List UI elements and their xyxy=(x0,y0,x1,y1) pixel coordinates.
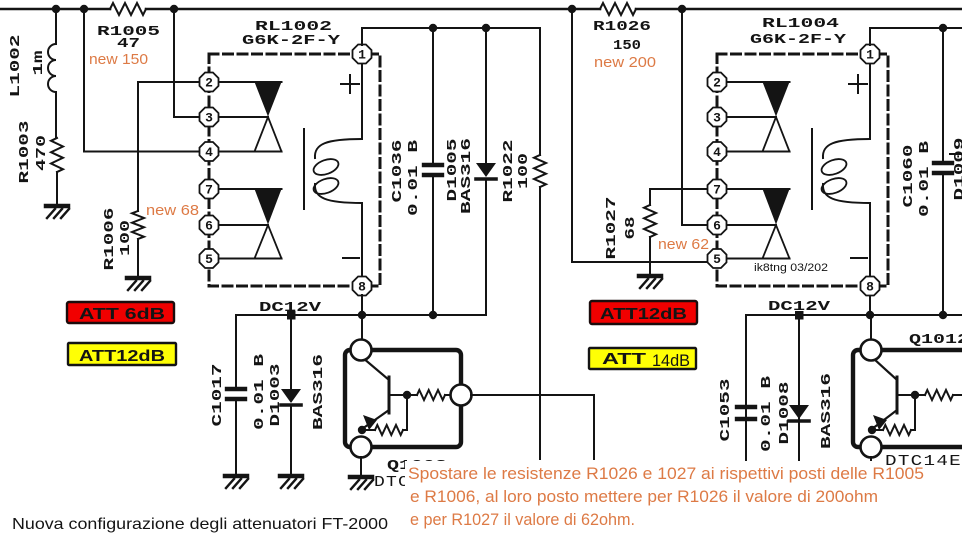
resistor R1026 150 (new 200) xyxy=(600,3,636,15)
node: junction C1060/DC12V xyxy=(939,311,947,319)
svg-text:100: 100 xyxy=(516,153,532,189)
transistor Q1003 DTC box outline xyxy=(345,350,461,447)
transistor emitter lead with arrow xyxy=(362,410,389,429)
node: emitter junction xyxy=(358,426,366,434)
relay RL1004 pin 6 xyxy=(708,216,727,235)
svg-text:new 200: new 200 xyxy=(594,54,656,71)
svg-text:e R1006, al loro posto mettere: e R1006, al loro posto mettere per R1026… xyxy=(410,487,878,506)
transistor Q1003 right pad xyxy=(451,385,472,406)
svg-text:6: 6 xyxy=(713,219,721,234)
wire: DC12V rail (right) xyxy=(746,314,962,316)
label box ATT 14dB (yellow, right) xyxy=(589,348,696,369)
svg-text:ik8tng 03/202: ik8tng 03/202 xyxy=(754,262,828,274)
svg-text:BAS316: BAS316 xyxy=(311,354,327,430)
svg-text:R1003: R1003 xyxy=(17,121,33,184)
relay RL1004 pin 7 xyxy=(708,180,727,199)
wire: bus to relay pin 3 xyxy=(174,9,199,117)
svg-text:DTC14E: DTC14E xyxy=(885,453,962,470)
relay RL1002 pin 1 xyxy=(353,45,372,64)
node: bus junction right of R1005 xyxy=(170,5,178,13)
svg-text:R1022: R1022 xyxy=(501,140,517,203)
relay contact B (pins 7-6-5) xyxy=(763,189,790,225)
svg-text:2: 2 xyxy=(713,76,721,91)
coil + polarity mark xyxy=(849,83,867,85)
wire: pin 2 contact line xyxy=(726,81,790,83)
ground under R1003 xyxy=(46,206,69,218)
label box ATT12dB (red, right) xyxy=(590,301,697,324)
svg-text:BAS316: BAS316 xyxy=(459,138,475,214)
relay RL1002 pin 4 xyxy=(200,142,219,161)
relay RL1004 pin 4 xyxy=(708,142,727,161)
svg-text:4: 4 xyxy=(205,145,213,160)
svg-text:new 68: new 68 xyxy=(146,202,199,219)
ground under R1006 xyxy=(127,278,150,290)
ground under C1017 xyxy=(225,476,248,488)
svg-text:D1003: D1003 xyxy=(268,364,284,427)
wire: pin 5 contact line xyxy=(726,258,790,260)
wire: Q1003 emitter pad to ground xyxy=(360,457,362,475)
transistor pad IN (top) xyxy=(351,340,372,361)
relay contact B (pins 7-6-5) xyxy=(255,189,282,225)
relay coil xyxy=(811,129,813,209)
wire: pin 4 contact line xyxy=(218,151,282,153)
resistor R2 (base-emitter) xyxy=(872,429,883,431)
svg-text:2: 2 xyxy=(205,76,213,91)
svg-text:7: 7 xyxy=(205,183,213,198)
svg-text:3: 3 xyxy=(713,111,721,126)
resistor R1003 470 xyxy=(51,138,63,172)
svg-text:1m: 1m xyxy=(31,51,47,76)
transistor pad OUT (bottom) xyxy=(861,437,882,458)
wire: relay pin 2 to R1006 xyxy=(138,82,200,211)
wire: pin 7 contact line xyxy=(726,188,790,190)
node: emitter junction xyxy=(868,426,876,434)
relay RL1002 pin 8 xyxy=(353,277,372,296)
wire: pin 8 to coil xyxy=(361,203,363,278)
svg-text:0.01 B: 0.01 B xyxy=(917,140,933,217)
node: bus junction at L1002 xyxy=(52,5,60,13)
diode D1005 BAS316 xyxy=(485,28,487,163)
svg-text:1: 1 xyxy=(866,48,874,63)
white backing of orange note xyxy=(405,461,933,532)
transistor pad IN (top) xyxy=(861,340,882,361)
diode D1009 (clipped at edge) xyxy=(950,153,962,155)
wire: pin 6 contact line xyxy=(726,224,776,226)
node: junction D1003/DC12V xyxy=(287,311,296,320)
wire: pin 3 contact line xyxy=(726,116,776,118)
wire: R2 to base node xyxy=(911,395,915,430)
capacitor C1060 0.01B xyxy=(942,28,944,161)
svg-text:7: 7 xyxy=(713,183,721,198)
wire: bus to relay pin 4 xyxy=(84,9,200,152)
svg-text:D1008: D1008 xyxy=(777,382,793,445)
relay RL1004 pin 2 xyxy=(708,73,727,92)
resistor R1005 47 (new 150) xyxy=(110,3,146,15)
relay coil xyxy=(303,129,305,209)
wire: base line xyxy=(897,394,925,396)
relay RL1002 pin 3 xyxy=(200,108,219,127)
relay RL1004 G6K-2F-Y dashed outline xyxy=(717,54,888,286)
node: junction D1008/DC12V xyxy=(795,311,804,320)
svg-text:8: 8 xyxy=(866,280,874,295)
node: junction pin8/DC12V right xyxy=(866,311,874,319)
wire: top +12V bus xyxy=(0,8,110,11)
svg-text:ATT12dB: ATT12dB xyxy=(600,306,687,323)
relay RL1002 pin 5 xyxy=(200,249,219,268)
label box ATT12dB (yellow) xyxy=(68,343,176,365)
wire: pin 8 to coil xyxy=(869,203,871,278)
transistor emitter lead with arrow xyxy=(872,410,897,429)
coil - polarity mark xyxy=(851,257,867,259)
svg-text:new 62: new 62 xyxy=(658,236,709,253)
svg-text:C1036: C1036 xyxy=(390,140,406,203)
svg-text:C1060: C1060 xyxy=(901,145,917,208)
svg-text:e per R1027 il valore di 62ohm: e per R1027 il valore di 62ohm. xyxy=(410,510,635,529)
svg-text:0.01 B: 0.01 B xyxy=(252,353,268,430)
node: junction C1036/DC12V xyxy=(429,311,437,319)
svg-text:4: 4 xyxy=(713,145,721,160)
transistor collector lead xyxy=(873,358,897,380)
resistor R2 (base-emitter) xyxy=(362,429,375,431)
node: bus junction left of R1005 xyxy=(80,5,88,13)
transistor pad OUT (bottom) xyxy=(351,437,372,458)
node: bus junction left of R1026 xyxy=(568,5,576,13)
wire: DC12V rail (left) xyxy=(236,314,486,316)
diode D1008 BAS316 xyxy=(798,315,800,461)
wire: pin 1 to coil xyxy=(869,62,871,139)
wire: pin 6 contact line xyxy=(218,224,268,226)
svg-text:5: 5 xyxy=(205,252,213,267)
node: junction C1060/rail xyxy=(939,24,947,32)
wire: pin 2 contact line xyxy=(218,81,282,83)
relay contact A (pins 2-3-4) xyxy=(763,82,790,117)
ground under R1027 xyxy=(639,276,662,288)
resistor R1 (base series) xyxy=(417,390,445,400)
wire: pin 4 contact line xyxy=(726,151,790,153)
svg-text:3: 3 xyxy=(205,111,213,126)
wire: bus to relay pin 5 (right) xyxy=(572,9,707,262)
wire: pin 8 stem down (right) xyxy=(869,296,871,315)
svg-text:G6K-2F-Y: G6K-2F-Y xyxy=(242,33,341,49)
wire: relay RL1004 pin 1 to upper rail xyxy=(870,28,962,45)
node: base junction xyxy=(403,391,411,399)
wire: pin 3 contact line xyxy=(218,116,268,118)
svg-text:C1053: C1053 xyxy=(718,379,734,442)
node: bus junction right of R1026 xyxy=(678,5,686,13)
svg-text:Spostare le resistenze R1026 e: Spostare le resistenze R1026 e 1027 ai r… xyxy=(408,464,924,483)
resistor R1006 100 (new 68) xyxy=(132,211,144,239)
svg-text:RL1004: RL1004 xyxy=(762,16,839,32)
svg-text:G6K-2F-Y: G6K-2F-Y xyxy=(750,32,847,48)
svg-text:100: 100 xyxy=(118,220,134,256)
capacitor C1036 0.01B xyxy=(432,28,434,163)
svg-text:ATT: ATT xyxy=(602,351,646,368)
relay RL1004 pin 3 xyxy=(708,108,727,127)
svg-text:150: 150 xyxy=(613,38,641,54)
svg-text:5: 5 xyxy=(713,252,721,267)
svg-text:R1027: R1027 xyxy=(604,197,620,260)
svg-text:8: 8 xyxy=(358,280,366,295)
node: junction pin8/DC12V xyxy=(358,311,366,319)
capacitor C1053 0.01B xyxy=(745,315,747,461)
resistor R1027 68 (new 62) xyxy=(649,189,651,205)
coil + polarity mark xyxy=(341,83,359,85)
wire: R2 to base node xyxy=(403,395,407,430)
inductor L1002 1m xyxy=(55,9,57,44)
wire: right transistor emitter stub xyxy=(870,457,872,462)
relay RL1004 pin 8 xyxy=(861,277,880,296)
relay RL1002 pin 7 xyxy=(200,180,219,199)
svg-text:Q1012: Q1012 xyxy=(909,332,962,348)
transistor collector lead xyxy=(363,358,389,380)
wire: DC12V to Q1003 collector pad xyxy=(361,315,363,341)
relay RL1004 pin 5 xyxy=(708,249,727,268)
svg-text:47: 47 xyxy=(117,36,140,52)
node: base junction xyxy=(911,391,919,399)
label box ATT 6dB (red) xyxy=(67,302,174,323)
svg-text:BAS316: BAS316 xyxy=(819,373,835,449)
wire: pin 8 stem down xyxy=(361,295,363,315)
relay RL1002 pin 2 xyxy=(200,73,219,92)
svg-text:0.01 B: 0.01 B xyxy=(406,139,422,216)
wire: relay pin 1 to upper branch rail xyxy=(362,28,540,45)
svg-text:14dB: 14dB xyxy=(652,351,690,370)
svg-text:R1026: R1026 xyxy=(593,19,651,35)
svg-text:Nuova configurazione degli att: Nuova configurazione degli attenuatori F… xyxy=(12,516,388,533)
svg-text:ATT12dB: ATT12dB xyxy=(79,348,165,365)
svg-text:68: 68 xyxy=(623,217,639,240)
relay RL1002 G6K-2F-Y dashed outline xyxy=(209,54,380,286)
node: junction D1005/rail xyxy=(482,24,490,32)
wire: bus to relay pin 6 (right) xyxy=(682,9,707,225)
svg-text:1: 1 xyxy=(358,48,366,63)
diode D1003 BAS316 xyxy=(290,315,292,389)
resistor R1022 100 xyxy=(539,28,541,155)
wire: pin 7 contact line xyxy=(218,188,282,190)
ground under Q1003 xyxy=(350,477,373,489)
svg-text:ATT 6dB: ATT 6dB xyxy=(79,306,165,323)
transistor base bar xyxy=(896,377,899,413)
wire: pin 1 to coil xyxy=(361,62,363,139)
coil - polarity mark xyxy=(343,257,359,259)
svg-text:L1002: L1002 xyxy=(8,34,24,97)
svg-text:470: 470 xyxy=(34,135,50,171)
wire: Q1003 output to lower right xyxy=(471,395,594,459)
wire: base line xyxy=(389,394,417,396)
svg-text:C1017: C1017 xyxy=(210,364,226,427)
capacitor C1017 0.01B xyxy=(235,315,237,387)
transistor Q1012 DTC box outline xyxy=(853,350,962,447)
relay contact A (pins 2-3-4) xyxy=(255,82,282,117)
ground under D1003 xyxy=(280,476,303,488)
relay RL1004 pin 1 xyxy=(861,45,880,64)
svg-text:0.01 B: 0.01 B xyxy=(759,375,775,452)
transistor base bar xyxy=(388,377,391,413)
wire: pin 5 contact line xyxy=(218,258,282,260)
svg-text:D1009: D1009 xyxy=(952,138,962,201)
svg-text:new 150: new 150 xyxy=(89,51,148,68)
svg-text:6: 6 xyxy=(205,219,213,234)
wire: DC12V to right transistor collector pad xyxy=(870,315,872,340)
svg-text:R1006: R1006 xyxy=(102,208,118,271)
resistor R1 (base series) xyxy=(925,390,953,400)
node: junction C1036/rail xyxy=(429,24,437,32)
relay RL1002 pin 6 xyxy=(200,216,219,235)
